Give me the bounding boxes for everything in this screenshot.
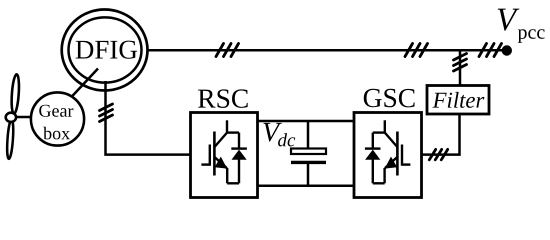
wire filter bottom to GSC output — [422, 114, 460, 155]
DC link capacitor C — [291, 121, 326, 186]
IGBT emitter lead with arrow — [383, 168, 385, 183]
svg-text:DFIG: DFIG — [75, 34, 138, 64]
IGBT gate lead — [201, 163, 209, 165]
svg-text:Filter: Filter — [432, 88, 485, 113]
wire collector node to diode cathode — [373, 131, 385, 133]
IGBT body bar — [396, 132, 399, 176]
GSC converter box — [354, 113, 422, 198]
svg-text:dc: dc — [277, 130, 296, 151]
three-phase slash marks on junction vertical wire — [454, 54, 467, 72]
IGBT collector lead — [385, 133, 398, 147]
three-phase slash marks on stator wire (right group) — [405, 44, 428, 57]
label Vpcc — [496, 2, 545, 43]
svg-text:RSC: RSC — [197, 83, 249, 114]
svg-text:box: box — [43, 123, 70, 143]
IGBT emitter lead with arrow — [226, 168, 228, 183]
wire DC link top rail — [258, 120, 355, 123]
wire emitter node to diode anode — [227, 182, 239, 184]
IGBT gate bar — [401, 145, 403, 166]
filter box — [427, 86, 489, 115]
wind turbine blade upper — [11, 74, 21, 114]
freewheeling diode — [238, 133, 240, 149]
label DFIG — [75, 34, 138, 64]
wire stator top line DFIG to PCC — [147, 49, 503, 52]
three-phase slash marks on rotor wire — [100, 104, 113, 122]
three-phase slash marks on GSC output wire — [429, 149, 447, 159]
svg-text:pcc: pcc — [518, 22, 546, 44]
three-phase slash marks on stator wire (left group) — [216, 44, 239, 57]
label Gear box — [38, 101, 73, 144]
turbine hub — [6, 113, 16, 122]
wire emitter node to diode anode — [373, 182, 385, 184]
freewheeling diode — [372, 133, 374, 149]
IGBT with diode inside RSC — [201, 120, 247, 183]
gearbox circle — [31, 92, 84, 145]
junction vertical wire from top line down to Filter — [459, 50, 462, 86]
svg-text:Gear: Gear — [38, 101, 73, 121]
IGBT collector lead — [215, 133, 228, 147]
wire rotor: DFIG bottom down to RSC — [106, 81, 191, 155]
label Filter — [432, 88, 485, 113]
IGBT with diode inside GSC (mirrored) — [365, 120, 411, 183]
shaft wire hub to gearbox — [13, 116, 33, 119]
PCC node dot — [502, 45, 512, 55]
DFIG machine inner circle — [69, 17, 142, 82]
IGBT gate bar — [209, 145, 211, 166]
RSC converter box — [191, 113, 258, 198]
DFIG machine outer circle — [62, 10, 148, 91]
label RSC — [197, 83, 249, 114]
label Vdc — [262, 117, 296, 151]
IGBT gate lead — [402, 163, 410, 165]
three-phase slash marks before PCC node — [479, 44, 502, 57]
wire DFIG to gearbox (mechanical link) — [70, 69, 98, 99]
wire collector node to diode cathode — [227, 131, 239, 133]
wire DC link bottom rail — [258, 185, 355, 188]
label GSC — [363, 82, 417, 113]
svg-text:GSC: GSC — [363, 82, 417, 113]
IGBT body bar — [213, 132, 216, 176]
wind turbine blade lower — [6, 120, 14, 159]
